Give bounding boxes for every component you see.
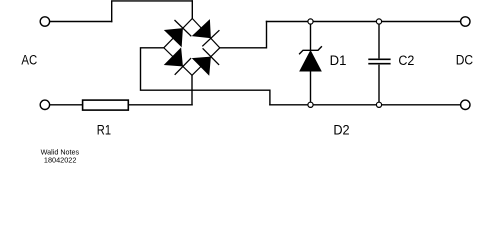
svg-text:C2: C2 xyxy=(398,53,414,68)
node junction bottom D1 xyxy=(308,102,313,107)
svg-text:R1: R1 xyxy=(97,123,111,138)
wire AC bottom to R1 xyxy=(50,104,83,106)
terminal DC bottom xyxy=(461,100,470,109)
bridge diode top-right xyxy=(193,21,219,47)
capacitor C2 xyxy=(368,22,390,105)
terminal AC bottom xyxy=(40,100,49,109)
wire bridge left down and across xyxy=(141,48,270,105)
node junction top C2 xyxy=(376,19,381,24)
wire R1 to bridge bottom xyxy=(128,104,192,106)
wire AC top to jog xyxy=(50,21,112,23)
svg-text:D2: D2 xyxy=(333,122,349,137)
bridge diode bottom-right xyxy=(193,48,219,74)
resistor R1 xyxy=(83,100,129,110)
bridge rectifier D2 diamond xyxy=(164,19,220,76)
svg-text:18042022: 18042022 xyxy=(44,156,77,164)
zener diode D1 xyxy=(300,22,322,105)
svg-text:AC: AC xyxy=(21,53,37,68)
terminal DC top xyxy=(461,17,470,26)
wire bridge bottom vertical xyxy=(191,75,193,105)
wire bridge right to top rail xyxy=(220,22,267,48)
svg-text:D1: D1 xyxy=(330,53,347,68)
wire top rail xyxy=(267,21,461,23)
bridge diode top-left xyxy=(165,20,191,46)
wire jog up xyxy=(112,1,193,22)
wire down to bridge top xyxy=(191,1,193,19)
node junction bottom C2 xyxy=(376,102,381,107)
svg-text:Walid Notes: Walid Notes xyxy=(41,148,80,156)
terminal AC top xyxy=(40,17,49,26)
bridge diode bottom-left xyxy=(165,49,191,75)
node junction top D1 xyxy=(308,19,313,24)
wire bottom rail xyxy=(270,104,461,106)
svg-text:DC: DC xyxy=(456,52,474,67)
